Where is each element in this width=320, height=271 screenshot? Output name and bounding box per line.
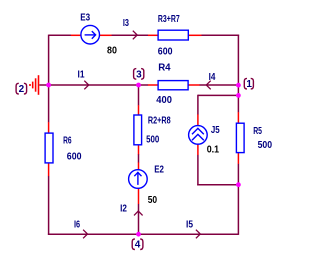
resistor R3+R7 bbox=[158, 30, 188, 40]
junction at node 3 bbox=[136, 83, 141, 88]
lead of R6 bottom bbox=[48, 163, 50, 176]
junction at node 2 bbox=[46, 83, 51, 88]
wire middle vertical lower bbox=[138, 204, 140, 234]
svg-text:I1: I1 bbox=[78, 69, 85, 80]
current arrow I1 bbox=[84, 81, 88, 90]
lead of R3+R7 right bbox=[188, 34, 201, 36]
svg-text:1: 1 bbox=[246, 79, 252, 90]
resistor R4 bbox=[158, 81, 188, 90]
svg-text:R3+R7: R3+R7 bbox=[158, 14, 180, 25]
junction inner loop top bbox=[236, 93, 241, 98]
junction at node 1 bbox=[236, 83, 241, 88]
current arrow I5 bbox=[196, 230, 200, 239]
svg-text:80: 80 bbox=[107, 46, 117, 57]
node 3 label bbox=[134, 69, 144, 81]
wire inner loop bottom bbox=[197, 184, 238, 186]
current arrow I3 bbox=[133, 31, 137, 40]
resistor R5 bbox=[236, 123, 244, 152]
wire bottom segment bbox=[48, 233, 239, 235]
wire middle vertical mid bbox=[138, 154, 140, 163]
wire top-middle segment bbox=[112, 34, 149, 36]
svg-text:R5: R5 bbox=[253, 126, 262, 137]
wire top-right segment bbox=[201, 34, 239, 36]
lead of E3 right bbox=[99, 34, 111, 36]
current arrow I6 bbox=[83, 230, 87, 239]
lead of R4 left bbox=[148, 84, 158, 86]
wire inner loop left upper bbox=[197, 95, 199, 115]
node 1 label bbox=[244, 78, 253, 90]
wire middle horizontal left bbox=[49, 84, 149, 86]
svg-text:R6: R6 bbox=[63, 136, 72, 147]
svg-text:E3: E3 bbox=[80, 13, 90, 24]
junction at node 4 bbox=[136, 232, 141, 237]
svg-text:I3: I3 bbox=[123, 18, 129, 29]
lead of R2+R8 top bbox=[138, 105, 140, 115]
voltage source E2 bbox=[129, 170, 148, 189]
current arrow I2 bbox=[134, 211, 143, 215]
svg-text:I2: I2 bbox=[120, 204, 127, 215]
junction inner loop bottom bbox=[236, 182, 241, 187]
wire middle vertical upper bbox=[138, 85, 140, 105]
wire inner loop top bbox=[198, 94, 239, 96]
svg-text:2: 2 bbox=[19, 84, 25, 95]
lead of R4 right bbox=[188, 84, 200, 86]
svg-text:3: 3 bbox=[136, 69, 142, 80]
resistor R2+R8 bbox=[134, 115, 142, 145]
svg-text:4: 4 bbox=[135, 240, 141, 251]
svg-text:R4: R4 bbox=[158, 62, 171, 73]
wire middle horizontal right bbox=[199, 84, 238, 86]
svg-text:0.1: 0.1 bbox=[207, 144, 220, 155]
wire ground stub bbox=[39, 84, 48, 86]
current source J5 bbox=[189, 126, 208, 145]
lead of E2 bottom bbox=[138, 188, 140, 204]
svg-text:I4: I4 bbox=[209, 72, 216, 83]
wire left vertical upper bbox=[48, 35, 50, 123]
lead of J5 top bbox=[197, 114, 199, 126]
svg-text:E2: E2 bbox=[154, 165, 164, 176]
lead of R3+R7 left bbox=[148, 34, 158, 36]
node 4 label bbox=[132, 239, 143, 251]
lead of R5 top bbox=[237, 112, 239, 123]
wire right vertical lower bbox=[237, 164, 239, 235]
node 2 label bbox=[16, 83, 27, 95]
wire inner loop left lower bbox=[197, 155, 199, 186]
wire right vertical upper bbox=[237, 35, 239, 113]
voltage source E3 bbox=[81, 25, 100, 44]
lead of R6 top bbox=[48, 122, 50, 133]
svg-text:R2+R8: R2+R8 bbox=[148, 116, 171, 127]
lead of E3 left bbox=[71, 34, 81, 36]
svg-text:I6: I6 bbox=[74, 219, 80, 230]
resistor R6 bbox=[45, 133, 53, 163]
lead of E2 top bbox=[138, 162, 140, 170]
wire top-left segment bbox=[49, 34, 71, 36]
lead of J5 bottom bbox=[197, 144, 199, 155]
lead of R2+R8 bottom bbox=[138, 145, 140, 155]
wire left vertical lower bbox=[48, 176, 50, 235]
svg-text:500: 500 bbox=[258, 140, 273, 151]
svg-text:50: 50 bbox=[148, 195, 158, 206]
svg-text:J5: J5 bbox=[211, 125, 220, 136]
svg-text:500: 500 bbox=[146, 135, 160, 146]
lead of R5 bottom bbox=[237, 153, 239, 164]
svg-text:I5: I5 bbox=[186, 220, 193, 231]
svg-text:400: 400 bbox=[156, 95, 172, 106]
ground symbol at node 2 bbox=[29, 75, 38, 95]
svg-text:600: 600 bbox=[67, 152, 82, 163]
current arrow I4 bbox=[206, 81, 210, 90]
svg-text:600: 600 bbox=[158, 47, 173, 58]
